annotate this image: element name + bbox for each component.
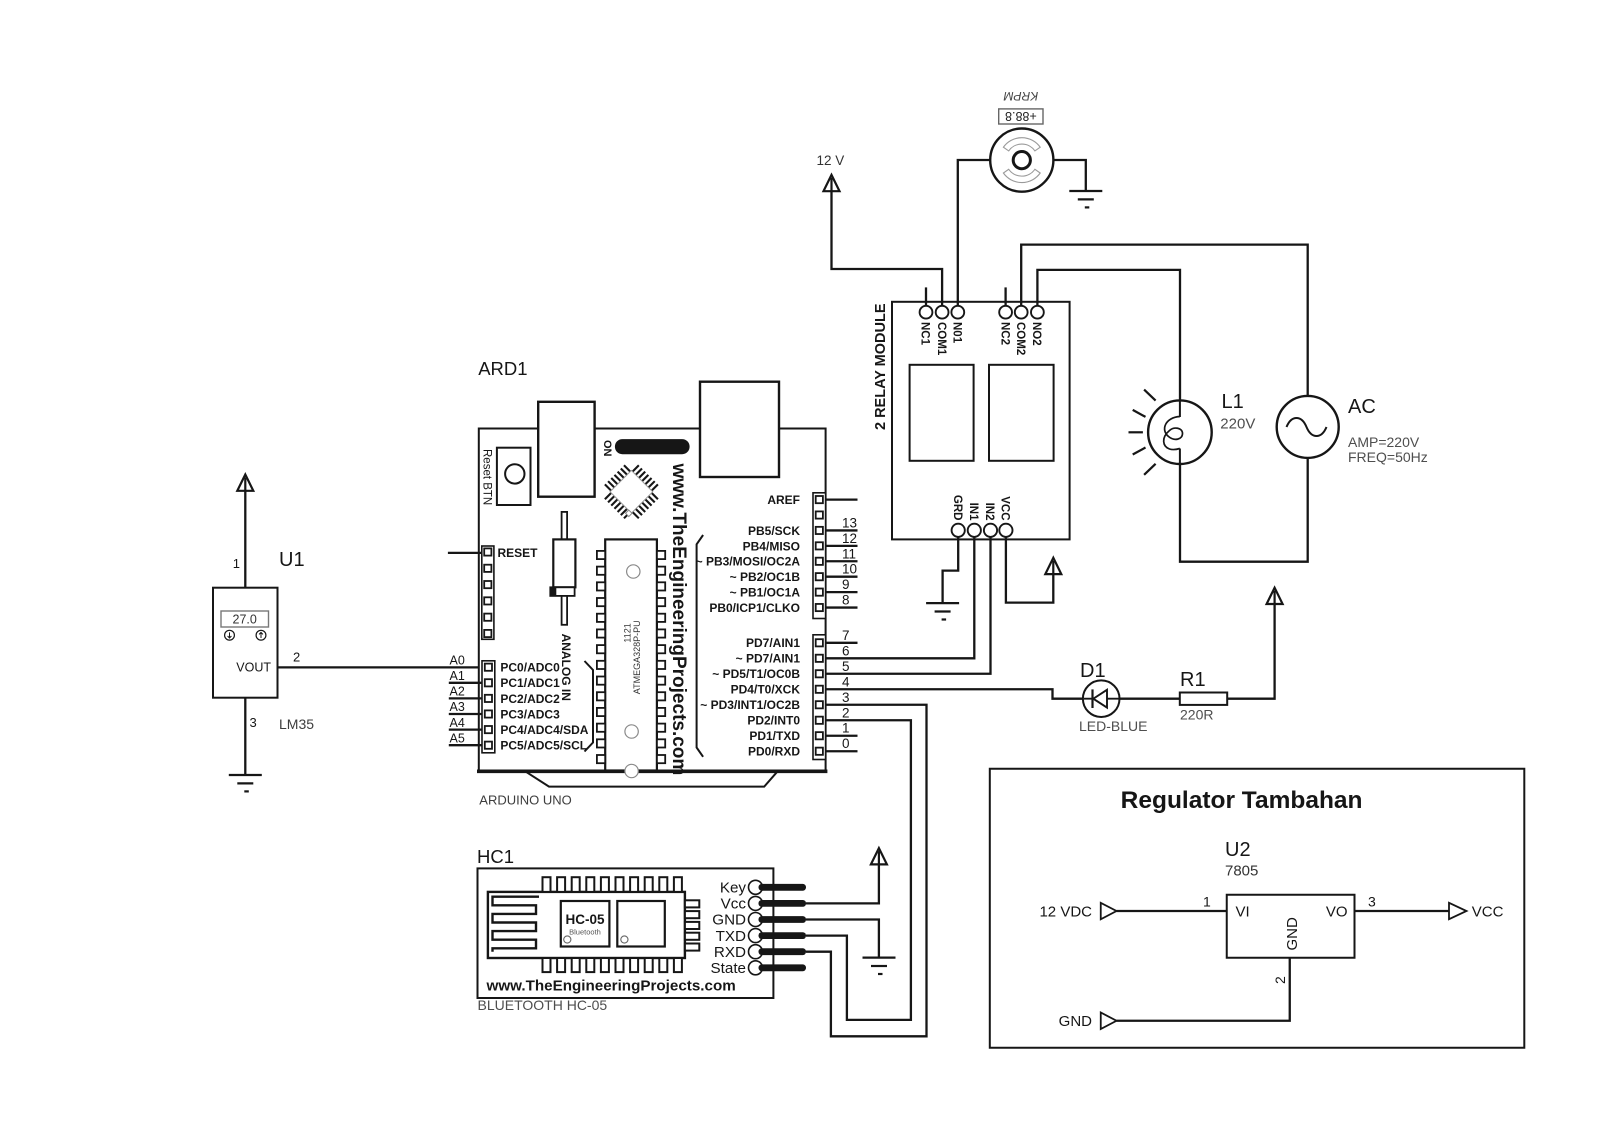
svg-text:ATMEGA328P-PU: ATMEGA328P-PU — [632, 620, 642, 694]
ARD1 DIP chip ATMEGA328P-PU — [605, 539, 657, 770]
svg-text:~ PD5/T1/OC0B: ~ PD5/T1/OC0B — [712, 667, 800, 681]
svg-text:L1: L1 — [1222, 391, 1244, 413]
wire stub — [826, 735, 858, 737]
svg-text:IN2: IN2 — [983, 503, 995, 521]
wire U1 pin1 to body — [244, 491, 246, 588]
svg-text:A0: A0 — [450, 653, 465, 667]
regulator subcircuit box — [990, 769, 1525, 1048]
motor RPM display +88.8 — [999, 109, 1043, 124]
svg-text:A1: A1 — [450, 669, 465, 683]
svg-text:PB5/SCK: PB5/SCK — [748, 524, 800, 538]
svg-text:A5: A5 — [450, 731, 465, 745]
pin A5 square — [485, 742, 492, 749]
svg-text:220R: 220R — [1180, 707, 1213, 723]
svg-text:A4: A4 — [450, 716, 465, 730]
wire RESET stub — [448, 552, 482, 554]
svg-text:RESET: RESET — [498, 546, 539, 560]
wire NC2 stub — [1004, 287, 1006, 305]
power arrow (U1 VCC) — [237, 475, 253, 491]
wire NO2-L1 — [1037, 270, 1180, 401]
ARD1 power switch (black capsule) — [615, 439, 690, 454]
svg-text:AC: AC — [1348, 396, 1376, 418]
sensor U1 LM35 body — [213, 588, 278, 698]
svg-text:1121: 1121 — [623, 623, 633, 642]
svg-text:PD7/AIN1: PD7/AIN1 — [746, 636, 800, 650]
regulator U2 body — [1227, 895, 1355, 958]
HC1 chip right pins — [685, 900, 699, 907]
svg-text:LED-BLUE: LED-BLUE — [1079, 718, 1147, 734]
svg-text:NC2: NC2 — [998, 322, 1010, 345]
svg-text:PD0/RXD: PD0/RXD — [748, 745, 800, 759]
relay pin COM1 — [936, 306, 949, 319]
bluetooth module HC1 box — [478, 868, 774, 998]
wire pin4-D1 — [826, 689, 1083, 698]
svg-text:BLUETOOTH HC-05: BLUETOOTH HC-05 — [478, 997, 608, 1013]
pin A3 square — [485, 710, 492, 717]
ARD1 digital header 8-13/AREF — [813, 493, 826, 619]
svg-text:HC-05: HC-05 — [565, 912, 605, 927]
svg-text:220V: 220V — [1220, 416, 1255, 433]
HC1 antenna — [493, 897, 540, 952]
svg-text:8: 8 — [842, 593, 850, 608]
svg-text:Key: Key — [720, 880, 747, 897]
svg-text:Vcc: Vcc — [721, 896, 747, 913]
U1 down button — [225, 630, 235, 640]
ground (relay GRD) — [926, 603, 959, 619]
svg-text:5: 5 — [842, 659, 850, 674]
wire L1-AC bottom — [1180, 458, 1308, 561]
svg-text:4: 4 — [842, 674, 850, 689]
svg-text:3: 3 — [842, 690, 850, 705]
U1 temperature display 27.0 — [221, 611, 269, 627]
ground (motor) — [1069, 191, 1102, 207]
wire stub 13 — [826, 529, 858, 531]
resistor R1 — [1180, 693, 1227, 705]
HC1 chip top pins — [543, 877, 551, 892]
svg-text:~ PD7/AIN1: ~ PD7/AIN1 — [736, 652, 801, 666]
ARD1 QFP chip (SMD) — [597, 458, 665, 526]
power arrow (HC1 Vcc) — [871, 848, 887, 864]
ARD1 USB connector — [538, 402, 594, 497]
ARD1 reset button (Reset BTN) — [497, 448, 531, 505]
wire VCC-arrow — [1006, 537, 1053, 603]
wire D1-R1 — [1120, 698, 1180, 700]
wire COM2-AC — [1021, 245, 1307, 397]
svg-text:12 V: 12 V — [817, 153, 845, 168]
svg-text:COM2: COM2 — [1014, 322, 1026, 355]
svg-text:Regulator Tambahan: Regulator Tambahan — [1121, 787, 1363, 814]
wire U1 pin3 to ground — [244, 698, 246, 775]
wire stub 9 — [826, 591, 858, 593]
svg-text:U2: U2 — [1225, 839, 1251, 861]
svg-text:VI: VI — [1236, 903, 1250, 920]
wire motor-gnd — [1053, 160, 1085, 191]
relay pin GRD — [952, 524, 965, 537]
svg-text:2: 2 — [293, 650, 300, 665]
svg-text:VOUT: VOUT — [236, 661, 271, 675]
svg-text:PC2/ADC2: PC2/ADC2 — [500, 692, 560, 706]
wire A4 stub — [449, 728, 482, 730]
wire N01-motor — [958, 160, 990, 306]
power arrow (R1 net) — [1267, 588, 1283, 604]
svg-text:12: 12 — [842, 531, 857, 546]
svg-text:State: State — [711, 960, 746, 977]
pin A0 square — [485, 664, 492, 671]
bracket for analog port group — [585, 661, 594, 752]
HC1 PCB plate — [488, 892, 685, 958]
svg-text:2 RELAY MODULE: 2 RELAY MODULE — [873, 303, 889, 430]
wire 12V-COM1 — [832, 191, 943, 306]
ground (U1) — [229, 775, 262, 791]
svg-text:0: 0 — [842, 736, 850, 751]
lamp L1 rays — [1144, 390, 1156, 401]
relay pin VCC — [999, 524, 1012, 537]
svg-text:GND: GND — [1059, 1013, 1093, 1030]
svg-text:R1: R1 — [1180, 669, 1206, 691]
svg-text:+88.8: +88.8 — [1005, 109, 1037, 123]
wire stub AREF — [826, 498, 858, 500]
svg-text:VCC: VCC — [999, 496, 1011, 520]
svg-text:12 VDC: 12 VDC — [1039, 903, 1092, 920]
wire stub 8 — [826, 606, 858, 608]
wire stub — [826, 750, 858, 752]
wire stub 10 — [826, 576, 858, 578]
U1 up button — [256, 630, 266, 640]
svg-text:D1: D1 — [1080, 660, 1106, 682]
relay pin N01 — [951, 306, 964, 319]
ARD1 analog header PC0-PC5 — [482, 661, 495, 753]
svg-text:N01: N01 — [951, 322, 963, 344]
svg-text:6: 6 — [842, 643, 850, 658]
power arrow (12V) — [824, 175, 840, 191]
svg-text:PC3/ADC3: PC3/ADC3 — [500, 707, 560, 721]
wire A0 net — [278, 666, 483, 668]
svg-text:GND: GND — [1284, 917, 1301, 951]
relay pin NO2 — [1031, 306, 1044, 319]
svg-text:AMP=220V: AMP=220V — [1348, 434, 1420, 450]
svg-text:TXD: TXD — [716, 928, 746, 945]
svg-text:1: 1 — [1203, 894, 1211, 910]
pin A4 square — [485, 726, 492, 733]
wire NC1 stub — [925, 287, 927, 305]
svg-text:~ PB3/MOSI/OC2A: ~ PB3/MOSI/OC2A — [696, 555, 801, 569]
svg-text:PD4/T0/XCK: PD4/T0/XCK — [731, 683, 801, 697]
HC1 chip bottom pins — [543, 958, 551, 972]
svg-text:3: 3 — [1368, 894, 1376, 910]
ARD1 RESET header — [482, 546, 494, 639]
svg-text:7805: 7805 — [1225, 863, 1258, 880]
ARD1 crystal component — [562, 512, 568, 540]
svg-text:PD1/TXD: PD1/TXD — [749, 729, 800, 743]
wire R1-arrow — [1227, 603, 1274, 699]
svg-text:PC5/ADC5/SCL: PC5/ADC5/SCL — [500, 739, 587, 753]
wire GRD-gnd — [943, 537, 959, 603]
svg-text:NC1: NC1 — [919, 322, 931, 346]
svg-text:ANALOG IN: ANALOG IN — [559, 634, 573, 701]
motor — [990, 129, 1053, 192]
svg-text:1: 1 — [233, 556, 240, 571]
svg-text:PC1/ADC1: PC1/ADC1 — [500, 676, 560, 690]
relay module box — [892, 302, 1070, 540]
bracket for digital port group — [697, 535, 704, 757]
HC-05 chip label box — [561, 901, 610, 947]
svg-text:~ PD3/INT1/OC2B: ~ PD3/INT1/OC2B — [700, 698, 800, 712]
wire stub 11 — [826, 560, 858, 562]
wire Vcc-arrow — [806, 864, 879, 904]
svg-text:3: 3 — [250, 715, 257, 730]
svg-text:A3: A3 — [450, 700, 465, 714]
wire U2 pin2 — [1117, 958, 1290, 1021]
svg-text:U1: U1 — [279, 549, 305, 571]
svg-text:PC0/ADC0: PC0/ADC0 — [500, 661, 560, 675]
svg-text:GND: GND — [712, 912, 746, 929]
relay pin NC2 — [999, 306, 1012, 319]
wire pin3-RXD — [806, 705, 927, 1037]
svg-text:ON: ON — [601, 440, 613, 457]
relay pin COM2 — [1015, 306, 1028, 319]
svg-text:ARDUINO UNO: ARDUINO UNO — [479, 793, 571, 808]
wire IN2-pin5 — [826, 537, 991, 674]
svg-text:KRPM: KRPM — [1004, 89, 1039, 103]
relay pin IN2 — [984, 524, 997, 537]
pin A1 square — [485, 679, 492, 686]
ground (HC1) — [863, 958, 896, 974]
wire 12VDC-VI — [1117, 910, 1227, 912]
svg-text:PB4/MISO: PB4/MISO — [743, 539, 800, 553]
svg-text:GRD: GRD — [951, 495, 963, 521]
ARD1 digital header 0-7 — [813, 635, 826, 760]
svg-text:PC4/ADC4/SDA: PC4/ADC4/SDA — [500, 723, 588, 737]
wire stub 12 — [826, 545, 858, 547]
svg-text:~ PB1/OC1A: ~ PB1/OC1A — [730, 586, 801, 600]
relay 1 body — [910, 365, 974, 461]
svg-text:Reset BTN: Reset BTN — [481, 449, 493, 505]
svg-text:www.TheEngineeringProjects.com: www.TheEngineeringProjects.com — [486, 978, 736, 995]
wire A3 stub — [449, 713, 482, 715]
svg-text:2: 2 — [842, 705, 850, 720]
svg-text:VCC: VCC — [1472, 903, 1504, 920]
svg-text:~ PB2/OC1B: ~ PB2/OC1B — [730, 570, 801, 584]
svg-text:PD2/INT0: PD2/INT0 — [747, 714, 800, 728]
ARD1 power jack connector — [700, 382, 779, 477]
wire A1 stub — [449, 682, 482, 684]
ARD1 QFP pin-1 marker — [626, 510, 633, 517]
svg-text:FREQ=50Hz: FREQ=50Hz — [1348, 449, 1428, 465]
svg-text:AREF: AREF — [767, 493, 800, 507]
wire GND-gnd — [806, 920, 879, 958]
svg-text:www.TheEngineeringProjects.com: www.TheEngineeringProjects.com — [668, 463, 689, 776]
relay 2 body — [989, 365, 1054, 461]
wire IN1-pin6 — [826, 537, 975, 658]
svg-text:LM35: LM35 — [279, 716, 314, 732]
wire VO-VCC — [1355, 910, 1450, 912]
svg-text:9: 9 — [842, 577, 850, 592]
AC source — [1277, 396, 1339, 458]
svg-text:ARD1: ARD1 — [478, 358, 527, 379]
relay pin NC1 — [920, 306, 933, 319]
svg-text:2: 2 — [1272, 976, 1288, 984]
svg-text:NO2: NO2 — [1030, 322, 1042, 346]
relay pin IN1 — [968, 524, 981, 537]
lamp L1 — [1148, 400, 1212, 464]
svg-text:COM1: COM1 — [935, 322, 947, 356]
svg-text:7: 7 — [842, 628, 850, 643]
svg-text:13: 13 — [842, 515, 857, 530]
wire stub — [826, 642, 858, 644]
output terminal VCC — [1449, 903, 1467, 919]
power arrow (relay VCC) — [1045, 558, 1061, 574]
pin A2 square — [485, 695, 492, 702]
HC1 second chip box — [617, 901, 665, 947]
svg-text:IN1: IN1 — [967, 503, 979, 522]
svg-text:RXD: RXD — [714, 944, 746, 961]
svg-text:VO: VO — [1326, 903, 1348, 920]
Arduino ARD1 main board outline — [479, 429, 826, 772]
wire pin2-TXD — [806, 720, 911, 1020]
wire A5 stub — [449, 744, 482, 746]
svg-text:PB0/ICP1/CLKO: PB0/ICP1/CLKO — [709, 601, 800, 615]
svg-text:A2: A2 — [450, 685, 465, 699]
svg-text:10: 10 — [842, 562, 857, 577]
svg-text:HC1: HC1 — [477, 846, 514, 867]
svg-text:27.0: 27.0 — [233, 613, 257, 627]
svg-text:1: 1 — [842, 721, 850, 736]
ARD1 bottom trapezoid — [525, 771, 777, 786]
svg-text:11: 11 — [842, 546, 856, 561]
wire A2 stub — [449, 697, 482, 699]
LED D1 — [1083, 680, 1120, 717]
svg-text:Bluetooth: Bluetooth — [569, 928, 601, 937]
